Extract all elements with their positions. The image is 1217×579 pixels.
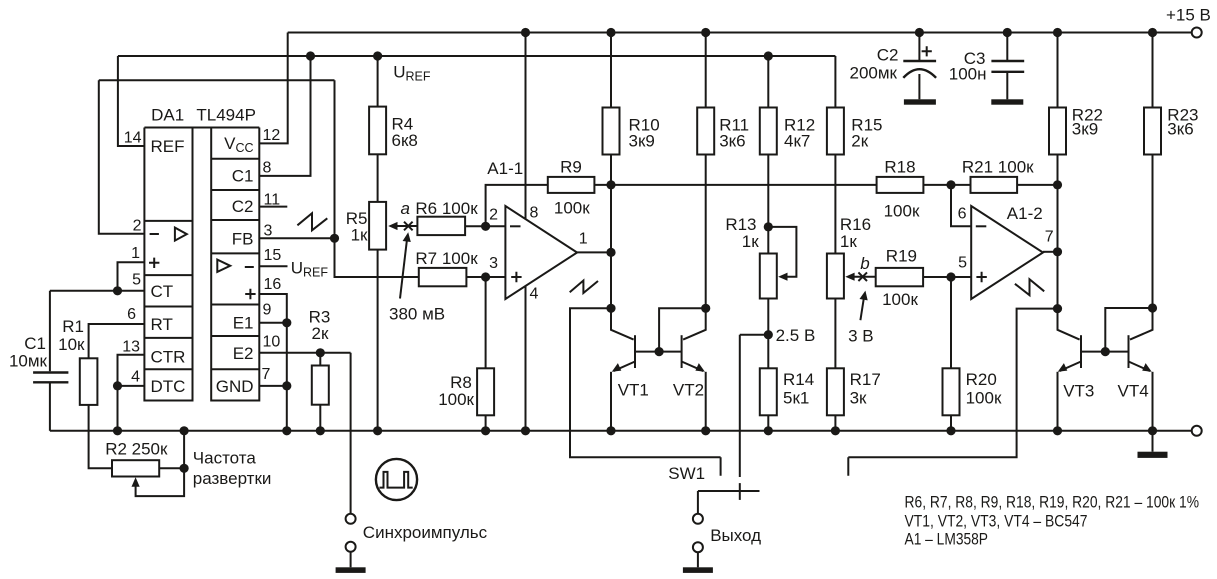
resistor R11 [697, 33, 749, 155]
svg-text:R2 250к: R2 250к [105, 440, 168, 459]
sawtooth symbol at FB [297, 213, 327, 230]
node ground bus / VT1 emitter [606, 426, 615, 435]
svg-text:REF: REF [151, 137, 185, 156]
transistor VT2 [673, 308, 706, 431]
svg-text:R6, R7, R8, R9, R18, R19, R20,: R6, R7, R8, R9, R18, R19, R20, R21 – 100… [905, 493, 1200, 512]
pin 6 label [127, 306, 136, 323]
capacitor C3 [949, 33, 1024, 105]
pin 1 label [131, 245, 140, 262]
svg-text:VT2: VT2 [673, 381, 704, 400]
svg-text:FB: FB [232, 230, 254, 249]
svg-text:200мк: 200мк [850, 64, 898, 83]
capacitor C2 [850, 33, 937, 105]
node ground bus / pin 7 column [282, 426, 291, 435]
wire Uref rail [118, 55, 836, 57]
wire pin 8 C1 to Uref rail [259, 56, 310, 176]
wire R5 bottom to ground bus [377, 250, 379, 431]
resistor R18 [877, 158, 924, 221]
node +15V rail / R23 [1148, 28, 1157, 37]
node VT1 collector junction [606, 304, 615, 313]
wire R14 to ground bus [767, 415, 769, 431]
wire R11 down to VT2 [705, 155, 707, 309]
svg-text:E2: E2 [233, 344, 254, 363]
svg-text:+15 В: +15 В [1166, 6, 1211, 25]
svg-text:100к: 100к [554, 199, 590, 218]
svg-text:100н: 100н [949, 65, 987, 84]
label sync pulse [363, 523, 488, 542]
svg-text:R21 100к: R21 100к [962, 158, 1034, 177]
svg-text:C1: C1 [232, 167, 254, 186]
pin 16 label [264, 276, 282, 293]
svg-text:R14: R14 [783, 370, 814, 389]
wire R10 down through output node [610, 155, 612, 309]
svg-text:7: 7 [1045, 229, 1054, 246]
node +15V rail / C3 [1003, 28, 1012, 37]
node ground bus / VT3 emitter [1053, 426, 1062, 435]
node pin 3 junction [481, 272, 490, 281]
resistor R4 [369, 56, 418, 154]
resistor R19 [876, 247, 923, 310]
svg-text:R7 100к: R7 100к [415, 249, 478, 268]
wire pin 4 to ground bus [525, 286, 527, 431]
resistor R6 [415, 199, 478, 235]
svg-text:a: a [401, 199, 410, 218]
wire base to VT2 collector [659, 308, 706, 351]
svg-text:R17: R17 [850, 370, 881, 389]
wire pin 3 down to R8 [485, 277, 487, 368]
svg-text:2.5 В: 2.5 В [776, 326, 816, 345]
node junction Uref rail / pin 8 [306, 51, 315, 60]
node base junction VT3-VT4 [1101, 347, 1110, 356]
wire 2.5V node to SW1 pole [740, 334, 769, 336]
pin 3 label [264, 223, 273, 240]
node sync terminal 1 [346, 514, 356, 524]
wire pin 7 to ground bus [286, 386, 288, 431]
node pin 5 junction [946, 272, 955, 281]
svg-text:2: 2 [133, 218, 142, 235]
node Uref rail / R12 [764, 51, 773, 60]
svg-text:GND: GND [216, 377, 254, 396]
node +15V rail / C2 [915, 28, 924, 37]
resistor R3 [309, 308, 331, 431]
wire R23 down to VT4 [1152, 155, 1154, 309]
svg-text:4к7: 4к7 [784, 132, 810, 151]
svg-text:10мк: 10мк [9, 352, 48, 371]
wire pin 8 supply from rail [525, 33, 527, 220]
wire pin 14 REF to Uref rail [118, 56, 144, 146]
svg-text:1: 1 [131, 245, 140, 262]
wire junction down to pin 6 [951, 185, 971, 226]
capacitor C1 [9, 291, 68, 431]
node VT4 collector junction [1148, 303, 1157, 312]
svg-text:16: 16 [264, 276, 282, 293]
transistor VT1 [611, 308, 649, 431]
svg-text:E1: E1 [233, 314, 254, 333]
wire pin 9 E1 [259, 322, 287, 324]
svg-text:DTC: DTC [151, 377, 186, 396]
wire R15 to R16 [834, 155, 836, 254]
node base junction VT1-VT2 [655, 347, 664, 356]
node ground bus / VT2 emitter [701, 426, 710, 435]
svg-text:A1-1: A1-1 [487, 159, 523, 178]
svg-text:CT: CT [151, 282, 174, 301]
pin 7 label [262, 366, 271, 383]
wire R13 to 2.5V node [767, 299, 769, 335]
svg-text:VT4: VT4 [1118, 382, 1149, 401]
svg-text:380 мВ: 380 мВ [389, 305, 445, 324]
potentiometer R13 [725, 215, 796, 299]
wire E1 down to pin 7 [286, 323, 288, 386]
resistor R17 [827, 368, 881, 415]
node DTC junction [113, 381, 122, 390]
svg-text:3: 3 [489, 255, 498, 272]
node sync terminal 2 [346, 542, 356, 552]
label output [710, 526, 761, 545]
wire R7 to pin 3 of A1-1 [466, 276, 505, 278]
node VT3 collector junction [1053, 304, 1062, 313]
svg-text:R19: R19 [886, 247, 917, 266]
svg-text:R9: R9 [560, 158, 582, 177]
node 2.5V [764, 326, 816, 345]
resistor R14 [760, 335, 814, 416]
transistor VT4 [1118, 308, 1153, 431]
node R2 right junction [180, 464, 189, 473]
svg-text:9: 9 [263, 302, 272, 319]
node R21 / R22 junction [1053, 180, 1062, 189]
label 3V with arrow [848, 291, 874, 346]
svg-text:6: 6 [958, 206, 967, 223]
svg-text:SW1: SW1 [668, 464, 705, 483]
wire +15V top rail [288, 32, 1192, 34]
pin 11 label [264, 192, 281, 209]
node ground bus / R14 [764, 426, 773, 435]
wire R1 to R2 [89, 405, 112, 468]
wire FB feedback loop top [99, 79, 335, 81]
wire R12 to R13 [767, 155, 769, 254]
svg-text:b: b [860, 254, 869, 273]
svg-text:R6 100к: R6 100к [415, 199, 478, 218]
wire R22 down through output node [1057, 155, 1059, 309]
label Uref net [393, 63, 431, 84]
svg-text:VT3: VT3 [1063, 382, 1094, 401]
node a wiper tap [397, 199, 418, 230]
svg-text:3к6: 3к6 [1167, 120, 1193, 139]
pin 8 label [263, 160, 272, 177]
node R13 top junction [764, 222, 773, 231]
transistor VT3 [1058, 309, 1095, 431]
resistor R15 [827, 56, 883, 155]
svg-text:C1: C1 [24, 334, 46, 353]
wire pin 10 E2 to sync [259, 352, 350, 354]
node VT2 collector junction [701, 304, 710, 313]
resistor R10 [603, 33, 660, 155]
svg-text:Синхроимпульс: Синхроимпульс [363, 523, 488, 542]
label sweep frequency [193, 449, 272, 489]
node +15V rail / R10 [606, 28, 615, 37]
wire pin 4 DTC [118, 385, 145, 387]
svg-text:2к: 2к [851, 132, 868, 151]
node ground bus / DTC column [113, 426, 122, 435]
pin 4 label [131, 369, 140, 386]
ground at output terminal [683, 553, 713, 573]
svg-text:Выход: Выход [710, 526, 761, 545]
resistor R20 [943, 368, 1002, 415]
IC DA1 TL494P [144, 106, 259, 401]
pin 13 label [122, 339, 140, 356]
svg-text:1к: 1к [840, 232, 857, 251]
svg-text:A1-2: A1-2 [1007, 204, 1043, 223]
node ground bus / R20 [946, 426, 955, 435]
wire FB to R7 [335, 238, 419, 277]
wire sync output drop [350, 353, 352, 513]
resistor R21 [962, 158, 1034, 193]
node ground bus / R17 [831, 426, 840, 435]
wire output node to SW1 right contact [848, 309, 1057, 476]
wire R19 to pin 5 [923, 276, 971, 278]
svg-text:C2: C2 [232, 197, 254, 216]
node +15V rail / R11 [701, 28, 710, 37]
pulse source symbol [376, 459, 417, 500]
wire feedback pin2 to R9 [486, 185, 548, 226]
wire VT1 VT2 base tie [635, 351, 682, 353]
svg-text:100к: 100к [882, 290, 918, 309]
wire output node to SW1 left contact [570, 308, 721, 475]
wire R2 right to ground bus [159, 431, 184, 469]
wire DTC to ground bus [117, 386, 119, 431]
pin 14 label [124, 130, 142, 147]
svg-text:5к1: 5к1 [783, 389, 809, 408]
svg-text:7: 7 [262, 366, 271, 383]
node pin 2 junction [481, 222, 490, 231]
label 380 mV with arrow [389, 232, 445, 323]
svg-text:100к: 100к [884, 202, 920, 221]
wire VT3 VT4 base tie [1081, 351, 1129, 353]
svg-text:R18: R18 [884, 158, 915, 177]
wire R8 to ground bus [485, 415, 487, 431]
node b wiper tap [854, 254, 876, 281]
node Uref label at pin 15 [291, 259, 329, 280]
potentiometer R16 [827, 215, 871, 299]
pin 15 label [264, 247, 282, 264]
node +15V rail / pin 8 column [521, 28, 530, 37]
svg-text:1к: 1к [351, 226, 368, 245]
wire R6 to pin 2 of A1-1 [465, 225, 505, 227]
pin 9 label [263, 302, 272, 319]
svg-text:1: 1 [579, 231, 588, 248]
wire pin 2 to feedback loop [99, 80, 145, 234]
resistor R8 [438, 368, 494, 415]
node R18 / R21 / pin 6 junction [946, 180, 955, 189]
node output 7 junction [1053, 247, 1062, 256]
svg-text:3: 3 [264, 223, 273, 240]
svg-text:10: 10 [263, 334, 281, 351]
svg-text:5: 5 [132, 272, 141, 289]
potentiometer R2 [105, 440, 184, 497]
node ground bus / pin 4 column [521, 426, 530, 435]
svg-text:развертки: развертки [193, 469, 272, 488]
svg-text:3к: 3к [850, 389, 867, 408]
resistor R12 [760, 56, 815, 155]
wire pin 7 GND [259, 385, 287, 387]
wire R17 to ground bus [834, 415, 836, 431]
ground at sync terminal [336, 552, 366, 572]
svg-text:RT: RT [151, 315, 173, 334]
node ground bus / R2 column [180, 426, 189, 435]
resistor R23 [1144, 33, 1198, 155]
ground bus [50, 430, 1191, 432]
wire pin5 node down to R20 [950, 277, 952, 368]
svg-text:100к: 100к [966, 389, 1002, 408]
node +15V rail / R22 [1053, 28, 1062, 37]
wire R20 to ground bus [950, 415, 952, 431]
svg-text:R1: R1 [62, 317, 84, 336]
wire pin 5 CT to C1 [50, 290, 144, 292]
op-amp A1-2 [958, 204, 1054, 299]
wire pin 13 CTR down [118, 355, 145, 386]
svg-text:10к: 10к [58, 335, 85, 354]
ground symbol at VT4 [1138, 431, 1168, 458]
svg-text:Частота: Частота [193, 449, 257, 468]
op-amp A1-1 [487, 159, 598, 303]
svg-text:13: 13 [122, 339, 140, 356]
svg-text:6к8: 6к8 [392, 131, 418, 150]
node FB junction [330, 234, 339, 243]
node ground bus right terminal [1192, 426, 1202, 436]
pin 15 stub [259, 265, 287, 267]
wire R4 to R5 [377, 154, 379, 202]
svg-text:CTR: CTR [151, 348, 186, 367]
pin 11 stub [259, 206, 287, 208]
pin 2 label [133, 218, 142, 235]
resistor R9 [548, 158, 595, 218]
node ground bus / R5 [373, 426, 382, 435]
node +15V terminal [1166, 6, 1211, 38]
node ground bus / R8 [481, 426, 490, 435]
wire pin 3 FB [259, 237, 334, 239]
svg-text:VT1, VT2, VT3, VT4 – BC547: VT1, VT2, VT3, VT4 – BC547 [905, 511, 1088, 530]
node output terminal 2 [693, 542, 703, 552]
svg-text:1к: 1к [742, 232, 759, 251]
svg-text:3к6: 3к6 [719, 132, 745, 151]
wire base to VT4 collector [1105, 308, 1152, 352]
svg-text:4: 4 [131, 369, 140, 386]
svg-text:2: 2 [489, 207, 498, 224]
svg-text:3к9: 3к9 [1072, 120, 1098, 139]
node output 1 junction [606, 248, 615, 257]
node R9 / R10 junction [606, 180, 615, 189]
pin 10 label [263, 334, 281, 351]
potentiometer R5 [346, 202, 398, 250]
wire A1-2 output pin 7 [1043, 251, 1058, 253]
svg-text:3к9: 3к9 [629, 132, 655, 151]
svg-text:R20: R20 [966, 370, 997, 389]
svg-text:3 В: 3 В [848, 327, 874, 346]
label parts list [905, 493, 1200, 549]
svg-text:A1 – LM358P: A1 – LM358P [905, 530, 989, 549]
wire pin 6 RT to R1 [89, 324, 145, 358]
resistor R7 [415, 249, 478, 286]
resistor R1 [58, 317, 97, 405]
svg-text:14: 14 [124, 130, 142, 147]
node E1 junction [282, 318, 291, 327]
node pin 7 junction [282, 381, 291, 390]
node CT junction [113, 286, 122, 295]
node ground bus / VT4 emitter [1148, 426, 1157, 435]
svg-text:8: 8 [530, 205, 539, 222]
wire A1-1 output pin 1 [577, 251, 611, 253]
svg-text:VT1: VT1 [618, 381, 649, 400]
node R3 top junction [316, 348, 325, 357]
resistor R22 [1049, 33, 1103, 155]
svg-text:5: 5 [958, 255, 967, 272]
pin 12 label [263, 127, 281, 144]
svg-text:12: 12 [263, 127, 281, 144]
wire FB junction up to loop [334, 80, 336, 238]
svg-text:4: 4 [530, 286, 539, 303]
svg-text:DA1: DA1 [151, 106, 184, 125]
wire pin 16 to pin 9 [259, 294, 287, 323]
svg-text:6: 6 [127, 306, 136, 323]
node Uref rail / R4 [373, 51, 382, 60]
svg-text:8: 8 [263, 160, 272, 177]
switch SW1 [668, 335, 759, 514]
svg-text:15: 15 [264, 247, 282, 264]
wire pin 12 Vcc to +15V rail [259, 33, 287, 144]
node output terminal 1 [693, 514, 703, 524]
wire R18 to R21 [923, 184, 970, 186]
wire R16 to ground via R17 [834, 299, 836, 369]
pin 5 label [132, 272, 141, 289]
svg-text:2к: 2к [312, 324, 329, 343]
node ground bus / R3 [316, 426, 325, 435]
wire R9 to R18 [594, 184, 876, 186]
svg-text:100к: 100к [438, 390, 474, 409]
wire R21 to R22 column [1017, 184, 1057, 186]
svg-text:TL494P: TL494P [196, 106, 256, 125]
svg-text:C2: C2 [877, 46, 899, 65]
wire pin 1 to CT [118, 262, 145, 291]
